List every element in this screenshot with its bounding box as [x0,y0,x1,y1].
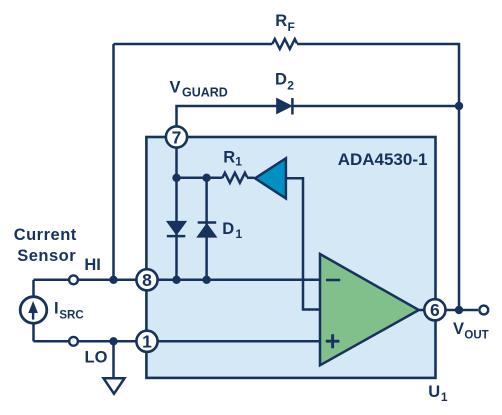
wire: feedback left vertical (HI row to RF row) [112,44,115,280]
svg-text:6: 6 [430,300,440,320]
resistor R1 [222,173,247,183]
svg-text:Current: Current [14,226,77,244]
wire: buffer output right and down to op-amp mid [286,178,320,309]
svg-text:1: 1 [142,332,152,352]
wire: HI row [34,279,321,282]
pin 8 [136,269,157,290]
junction dot diode row left [172,174,180,182]
svg-text:7: 7 [172,127,182,147]
current source ISRC [20,297,47,324]
wire: guard row right of D2 [292,105,459,108]
wire: guard stub from node 7 up and right to D2 [177,106,277,140]
svg-text:2: 2 [287,79,294,93]
svg-text:V: V [170,78,181,96]
junction dot diode row right [202,174,210,182]
svg-text:ADA4530-1: ADA4530-1 [338,150,428,169]
svg-text:GUARD: GUARD [182,85,228,99]
diode D1 right (anode down, pointing up) [198,224,216,237]
svg-text:1: 1 [236,227,243,241]
svg-text:1: 1 [235,154,242,168]
wire: current source top lead [32,280,35,297]
wire: node 7 vertical down through diode row to minus row [175,137,178,280]
svg-text:SRC: SRC [59,309,83,321]
chip body U1 (ADA4530-1) [146,137,435,378]
plus symbol [326,334,340,348]
wire: second diode vertical [205,178,208,280]
junction dot minus row left [172,276,180,284]
svg-text:V: V [453,320,464,338]
wire: RF row left segment [114,43,273,46]
svg-text:8: 8 [142,270,152,290]
svg-text:D: D [275,70,287,88]
svg-text:R: R [223,148,235,166]
wire: output row [419,309,478,312]
op-amp U1 triangle [320,254,419,365]
svg-text:Sensor: Sensor [17,247,76,265]
junction dot HI/feedback [109,276,117,284]
junction dot minus row right [202,276,210,284]
ground [104,378,125,394]
terminal HI [69,275,78,284]
pin 7 [166,126,187,147]
minus symbol [326,279,340,282]
wire: LO row / plus row [34,340,321,343]
pin 1 [136,331,157,352]
svg-text:LO: LO [85,348,108,366]
diode D2 [277,99,291,113]
svg-text:OUT: OUT [464,330,488,342]
diode D1 left (anode up, pointing down) [167,222,185,235]
wire: R1 to buffer tip [247,177,255,180]
svg-text:R: R [275,12,287,30]
svg-text:HI: HI [84,256,101,274]
wire: current source bottom lead [32,324,35,341]
svg-text:I: I [54,300,59,318]
guard buffer (teal amplifier) [255,158,286,198]
resistor RF [272,39,297,49]
svg-text:U: U [428,383,440,401]
wire: R1 row left segment [177,177,223,180]
pin 6 [424,299,445,320]
wire: ground drop [112,341,115,377]
svg-text:D: D [222,220,234,238]
junction dot LO/ground [109,337,117,345]
terminal LO [69,337,78,346]
svg-text:1: 1 [441,390,448,404]
junction dot guard/RF [455,102,463,110]
svg-text:F: F [288,20,295,34]
junction dot output [455,306,463,314]
terminal VOUT [479,306,488,315]
wire: RF row right segment and right vertical down to output row [297,44,459,310]
